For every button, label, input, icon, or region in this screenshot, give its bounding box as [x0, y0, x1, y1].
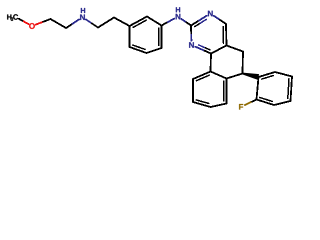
- atom label O (ether oxygen): [29, 23, 35, 29]
- bond Cd-A_UL: [114, 18, 130, 27]
- bond A_LL-A_UL: [129, 26, 131, 47]
- bond N3-C4: [214, 16, 226, 24]
- bond Nar-C2: [182, 19, 192, 26]
- bond C4a-C8a: [211, 46, 227, 54]
- atom label N1 (pyrimidine): [189, 42, 194, 48]
- bond C4a-C5: [227, 46, 244, 52]
- bond A_UR-Nar: [162, 19, 175, 26]
- double bond F6-F1: [259, 72, 276, 79]
- atom label F (fluorine): [239, 104, 243, 110]
- double bond A_B-A_LL: [130, 45, 147, 53]
- double bond C10-C10a: [193, 72, 211, 81]
- double bond F2-F3: [257, 98, 275, 106]
- bond C8a-C10a: [210, 54, 213, 72]
- bond C7-C8: [211, 104, 227, 108]
- double bond F4-F5: [288, 77, 292, 102]
- double bond C8a-N1: [195, 45, 211, 54]
- bond N1-C2: [190, 26, 192, 41]
- bond F3-F4: [274, 101, 291, 105]
- bond Me-O1: [19, 19, 29, 24]
- double bond C6a-C7: [224, 79, 227, 104]
- bond F2-F: [245, 100, 257, 106]
- atom label N3 (pyrimidine): [208, 11, 213, 17]
- atom label N + H (aniline NH): [176, 7, 181, 19]
- atom label N + H (chain amine NH): [80, 8, 85, 20]
- bond A_T-A_UR: [147, 17, 162, 26]
- double bond C4-C4a: [223, 24, 226, 46]
- chemical structure diagram (2D molecule depiction): [0, 0, 300, 120]
- bond A_LR-A_B: [147, 48, 162, 53]
- bond Cc-Cd: [98, 18, 114, 28]
- bond C9-C10: [192, 79, 194, 102]
- wedge bond C6-C1p (stereo): [242, 73, 259, 80]
- double bond C2-N3: [191, 16, 207, 27]
- bond Cb-Na: [66, 20, 79, 29]
- bond Ca-Cb: [51, 19, 67, 28]
- bond C6-C6a: [227, 74, 243, 79]
- atom label H3C (methyl): [7, 14, 18, 21]
- bond C10a-C6a: [211, 72, 227, 79]
- bond Na-Cc: [86, 20, 98, 28]
- double bond A_UR-A_LR: [159, 26, 162, 49]
- double bond C8-C9: [193, 100, 211, 107]
- double bond A_UL-A_T: [130, 17, 148, 28]
- bond O1-Ca: [36, 19, 51, 25]
- bond F1-F2: [257, 77, 259, 100]
- bond F5-F6: [275, 72, 292, 77]
- bond C5-C6: [242, 52, 245, 74]
